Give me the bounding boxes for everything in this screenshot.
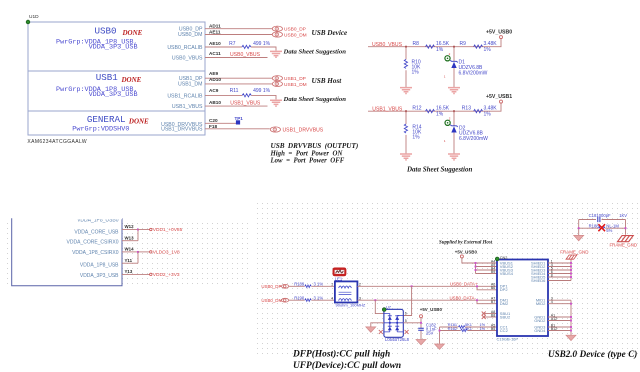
svg-text:USB1_VBUS: USB1_VBUS: [172, 104, 203, 110]
wire C18 top: [579, 219, 626, 221]
ground FRAME_GND symbol (C18): [618, 236, 634, 242]
svg-text:AD10: AD10: [209, 77, 221, 82]
svg-text:USB0_VBUS: USB0_VBUS: [230, 52, 261, 58]
svg-text:USB1_VBUS: USB1_VBUS: [230, 101, 261, 107]
svg-text:USB0_DATA+: USB0_DATA+: [450, 281, 478, 286]
svg-text:VLDO3_1V8: VLDO3_1V8: [153, 250, 180, 256]
svg-text:Low = Port Power OFF: Low = Port Power OFF: [270, 157, 345, 164]
no-connect X U7 bottom left: [379, 330, 383, 334]
wire SHIED5: [548, 276, 571, 278]
svg-text:USB1_RCALIB: USB1_RCALIB: [167, 93, 203, 99]
no-connect X R188 DNP mark: [598, 224, 605, 231]
svg-text:High = Port Power ON: High = Port Power ON: [270, 150, 344, 157]
resistor R11: [242, 94, 251, 97]
node VLDO3_1V8 net label: [150, 251, 152, 253]
svg-text:8: 8: [276, 27, 278, 31]
wire R190 to choke pin4: [311, 299, 335, 301]
capacitor C182: [418, 328, 424, 330]
wire USB0_DP to R189: [289, 285, 305, 287]
junction +5V / U7: [420, 322, 422, 324]
svg-text:USB0_DP: USB0_DP: [261, 284, 281, 289]
wire DM2 branch: [477, 300, 497, 304]
svg-text:DFP(Host):CC pull high: DFP(Host):CC pull high: [292, 348, 390, 359]
svg-text:2: 2: [359, 282, 361, 286]
svg-text:Data Sheet Suggestion: Data Sheet Suggestion: [283, 96, 347, 103]
resistor R189: [305, 285, 311, 288]
port USB1_DM off-page connector: [272, 81, 282, 86]
ground below R14: [400, 154, 412, 160]
wire SBU1 stub: [484, 313, 497, 315]
svg-text:AE9: AE9: [209, 71, 219, 76]
junction DP2: [476, 285, 478, 287]
wire USB1_DRVVBUS: [205, 128, 270, 130]
svg-text:DP2: DP2: [500, 287, 509, 292]
junction R14 tap: [405, 110, 407, 112]
wire USB1_DM: [205, 83, 272, 85]
node CN2 reference: [495, 257, 499, 261]
svg-text:R9: R9: [460, 41, 467, 47]
svg-text:3 1%: 3 1%: [314, 281, 324, 286]
power +5V_USB1 symbol: [500, 100, 503, 103]
svg-text:DM2: DM2: [500, 301, 509, 306]
resistor R188 (DNP): [599, 227, 605, 230]
svg-text:Y13: Y13: [125, 269, 133, 274]
svg-text:4: 4: [331, 296, 333, 300]
junction SHIED bus: [570, 262, 572, 264]
svg-text:Data Sheet Suggestion: Data Sheet Suggestion: [283, 49, 347, 56]
wire USB0_VBUS stub: [205, 57, 268, 59]
junction VDD1: [137, 229, 139, 231]
wire VDD1 net stub: [138, 229, 150, 231]
svg-text:499 1%: 499 1%: [253, 88, 271, 94]
wire USB0_VBUS rail: [368, 39, 501, 47]
svg-text:+5V_USB1: +5V_USB1: [486, 94, 512, 100]
svg-text:U7: U7: [386, 304, 392, 309]
svg-text:6.8V/200mW: 6.8V/200mW: [459, 70, 488, 76]
node VDD1_+0V85 net label: [150, 228, 152, 230]
svg-text:5K1: 5K1: [465, 326, 472, 331]
port USB0_DP off-page connector: [272, 26, 282, 31]
svg-text:AB10: AB10: [209, 100, 221, 105]
wire USB0_DM: [205, 34, 272, 36]
svg-text:USB1_DRVVBUS: USB1_DRVVBUS: [283, 127, 324, 133]
ground below R11: [270, 100, 282, 106]
wire CC1: [440, 326, 498, 328]
svg-text:AC9: AC9: [209, 88, 219, 93]
wire USB1_DP: [205, 77, 272, 79]
port USB1_DRVVBUS off-page connector: [270, 127, 280, 132]
svg-text:W12: W12: [125, 224, 135, 229]
ground below R10: [400, 88, 412, 94]
svg-text:1%: 1%: [436, 47, 444, 53]
wire VLDO3 net stub: [138, 251, 150, 253]
wire CC join to ground: [439, 327, 441, 344]
ground below GND bus: [566, 335, 576, 340]
pin number A8 B8: [491, 310, 495, 318]
svg-text:+5V_USB0: +5V_USB0: [486, 30, 512, 36]
svg-text:USB1_DRVVBUS: USB1_DRVVBUS: [161, 127, 203, 133]
junction ESD DM tap: [374, 299, 376, 301]
svg-text:1KV: 1KV: [619, 213, 627, 218]
node red stamp marker: [333, 268, 346, 276]
pin name GND1-4: [534, 314, 546, 333]
IC U1 power-pin block (clipped at top): [12, 218, 122, 286]
ground below C182: [416, 340, 426, 345]
resistor R190: [305, 299, 311, 302]
svg-text:1%: 1%: [412, 135, 420, 141]
connector CN2 block: [497, 260, 548, 337]
svg-text:USB1_DP: USB1_DP: [284, 76, 306, 82]
svg-text:AD11: AD11: [209, 24, 221, 29]
svg-text:C19GB-16P: C19GB-16P: [497, 337, 519, 342]
IC U1D USB controller block: [28, 22, 205, 135]
svg-text:U1D: U1D: [29, 14, 39, 20]
svg-text:R182: R182: [448, 326, 457, 331]
wire SHIED2: [548, 266, 571, 268]
svg-text:R188: R188: [589, 223, 600, 228]
svg-text:B8: B8: [491, 313, 495, 317]
pin name CC1 CC2: [500, 324, 509, 333]
svg-text:USB0_DM: USB0_DM: [178, 32, 203, 38]
svg-text:UFP(Device):CC pull down: UFP(Device):CC pull down: [293, 360, 401, 371]
wire GND4: [548, 330, 571, 332]
svg-text:USB0_RCALIB: USB0_RCALIB: [167, 45, 203, 51]
svg-text:USB2.0 Device (type C): USB2.0 Device (type C): [548, 349, 637, 359]
svg-text:1%: 1%: [484, 47, 492, 53]
resistor R14 vertical: [405, 111, 407, 154]
svg-text:R8: R8: [413, 41, 420, 47]
svg-text:USB0: USB0: [95, 26, 117, 37]
wire USB0_RCALIB: [205, 47, 276, 51]
junction GND bus MID2: [570, 303, 572, 305]
junction VBUS2: [475, 266, 477, 268]
junction D1 tap: [453, 46, 455, 48]
diode array U7 ESD protection: [384, 304, 403, 337]
svg-text:AE11: AE11: [209, 29, 221, 34]
wire USB0_DATA-: [357, 299, 497, 301]
wire U7 ground branch: [371, 323, 384, 327]
svg-text:5: 5: [405, 319, 407, 323]
svg-text:8: 8: [276, 82, 278, 86]
wire USB0_DRVVBUS to TP1: [205, 122, 237, 124]
svg-text:Data Sheet Suggestion: Data Sheet Suggestion: [406, 165, 472, 173]
svg-text:FRAME_GND: FRAME_GND: [610, 242, 638, 247]
svg-text:VDD2_+3V3: VDD2_+3V3: [153, 272, 180, 278]
svg-text:90ohm_100MHZ: 90ohm_100MHZ: [336, 303, 366, 308]
wire CC2: [440, 330, 498, 332]
testpoint TP1: [236, 120, 240, 124]
svg-text:XAM6234ATCGGAALW: XAM6234ATCGGAALW: [27, 139, 87, 145]
power +5V_USB0 symbol: [500, 36, 503, 39]
svg-text:W13: W13: [125, 235, 135, 240]
svg-text:R11: R11: [230, 88, 239, 94]
resistor R182: [461, 329, 467, 332]
resistor R10 vertical: [405, 47, 407, 88]
svg-text:USB1_DM: USB1_DM: [284, 82, 307, 88]
wire R189 to choke pin1: [311, 285, 335, 287]
wire ESD DM branch: [375, 300, 384, 313]
svg-text:USB1_VBUS: USB1_VBUS: [372, 106, 403, 112]
junction D2 tap: [453, 110, 455, 112]
svg-text:B6: B6: [491, 286, 495, 290]
svg-text:R12: R12: [412, 106, 421, 112]
resistor R13: [474, 110, 483, 113]
wire MID1: [548, 299, 571, 301]
svg-text:5%: 5%: [606, 228, 612, 233]
svg-text:USB0_VBUS: USB0_VBUS: [172, 55, 203, 61]
svg-text:CN2: CN2: [500, 256, 508, 260]
wire GND bus vertical: [570, 300, 572, 335]
wire GND2: [548, 320, 571, 322]
svg-text:1: 1: [331, 282, 333, 286]
no-connect X U7 bottom right: [405, 330, 409, 334]
svg-text:SHIED6: SHIED6: [531, 278, 546, 283]
svg-text:L054BT26L8: L054BT26L8: [385, 337, 410, 342]
junction R10 tap: [405, 46, 407, 48]
ground below D2: [448, 154, 460, 160]
svg-text:VDDA_1P8_USB: VDDA_1P8_USB: [80, 263, 119, 269]
resistor R181: [459, 326, 465, 329]
svg-text:B5: B5: [491, 327, 495, 331]
node D2 probe ring: [445, 120, 450, 125]
svg-text:GND4: GND4: [534, 328, 546, 333]
junction ESD DP tap: [411, 285, 413, 287]
svg-text:USB Device: USB Device: [312, 29, 349, 37]
svg-text:B12: B12: [551, 327, 557, 331]
svg-text:R13: R13: [462, 106, 471, 112]
ground below U7 left: [366, 327, 376, 332]
svg-text:AE10: AE10: [209, 41, 221, 46]
svg-text:USB0_DM: USB0_DM: [261, 298, 282, 303]
svg-text:W14: W14: [125, 247, 135, 252]
ground below CC resistors: [435, 344, 445, 349]
svg-text:VDDA_3P3_USB: VDDA_3P3_USB: [89, 91, 138, 99]
wire C18 left vertical: [578, 220, 580, 236]
wire ESD DP branch: [403, 286, 411, 315]
ground below D1: [448, 88, 460, 94]
resistor R9: [474, 45, 483, 48]
svg-text:F18: F18: [209, 124, 217, 129]
svg-text:USB1_DM: USB1_DM: [178, 82, 203, 88]
wire VDDA_1P8_USB pin: [122, 262, 138, 264]
junction R188 right: [625, 227, 627, 229]
svg-text:VDDA_CORE_CSIRX0: VDDA_CORE_CSIRX0: [67, 240, 119, 246]
svg-text:GENERAL: GENERAL: [87, 114, 126, 125]
ground below C18 left: [574, 235, 584, 240]
svg-text:AC11: AC11: [209, 51, 221, 56]
svg-text:VDDA_3P3_USB: VDDA_3P3_USB: [89, 44, 138, 52]
wire VDDA_CORE_USB pin: [122, 229, 138, 231]
svg-text:R190: R190: [294, 295, 305, 300]
wire join W12-W13: [137, 230, 139, 241]
svg-text:USB0_DP: USB0_DP: [284, 27, 306, 33]
svg-text:+5V_USB0: +5V_USB0: [420, 307, 443, 312]
wire SHIED1: [548, 262, 571, 264]
ground below R7: [270, 51, 282, 57]
svg-text:3 1%: 3 1%: [314, 295, 324, 300]
wire U7 pin5 to +5V rail: [403, 322, 421, 324]
svg-text:FRAME_GND: FRAME_GND: [560, 250, 589, 255]
svg-text:8: 8: [276, 33, 278, 37]
node D1 probe ring: [445, 56, 450, 61]
svg-text:B9: B9: [491, 270, 495, 274]
junction DM2: [476, 299, 478, 301]
svg-text:Supplied by External Host: Supplied by External Host: [439, 240, 493, 245]
junction GND3: [570, 326, 572, 328]
wire VBUS2: [476, 266, 498, 268]
svg-text:Y11: Y11: [125, 258, 133, 263]
wire USB1_VBUS stub: [205, 105, 268, 107]
svg-text:VDDA_CORE_USB: VDDA_CORE_USB: [74, 230, 119, 236]
svg-text:3: 3: [359, 296, 361, 300]
svg-text:25V: 25V: [426, 331, 434, 336]
svg-text:VDD1_+0V85: VDD1_+0V85: [153, 227, 183, 233]
svg-text:1000pF: 1000pF: [596, 213, 611, 218]
inductor LE1 common mode choke: [335, 277, 358, 303]
junction R188 left: [578, 227, 580, 229]
pin number A5 B5: [491, 323, 495, 331]
no-connect X SBU1: [482, 312, 486, 316]
junction CC2 join: [439, 330, 441, 332]
wire USB0_DM to R190: [289, 299, 305, 301]
wire MID2: [548, 303, 571, 305]
svg-text:1%: 1%: [480, 326, 486, 331]
svg-text:C20: C20: [209, 118, 218, 123]
pin name DM1 DM2: [500, 298, 509, 307]
svg-text:USB0_VBUS: USB0_VBUS: [372, 42, 403, 48]
wire GND1: [548, 316, 571, 318]
svg-text:8: 8: [551, 273, 553, 277]
wire D2 branch: [453, 111, 455, 154]
resistor R12: [426, 110, 435, 113]
wire USB1_RCALIB: [205, 95, 276, 99]
svg-text:VDDA_3P3_USB: VDDA_3P3_USB: [80, 273, 119, 279]
svg-text:VBUS4: VBUS4: [500, 271, 514, 276]
pin number A4 A9 B4 B9: [491, 259, 495, 274]
svg-text:TP1: TP1: [235, 116, 244, 121]
svg-text:USB DRVVBUS (OUTPUT): USB DRVVBUS (OUTPUT): [271, 142, 359, 150]
wire SBU2 stub: [484, 316, 497, 318]
diode D2 zener: [450, 125, 457, 133]
wire SHIED bus vertical: [570, 259, 572, 280]
wire VDDA_3P3_USB pin: [122, 273, 150, 275]
svg-text:6: 6: [405, 312, 407, 316]
wire SHIED4: [548, 273, 571, 275]
svg-text:6.8V/200mW: 6.8V/200mW: [459, 136, 488, 142]
svg-text:USB0_DATA-: USB0_DATA-: [450, 295, 477, 300]
junction VLDO3: [137, 251, 139, 253]
wire VBUS4: [476, 273, 498, 275]
svg-text:1%: 1%: [412, 70, 420, 76]
svg-text:VDDA_1P8_CSIRX0: VDDA_1P8_CSIRX0: [72, 250, 119, 256]
wire join W14-Y11: [137, 252, 139, 263]
svg-text:GND2: GND2: [534, 318, 546, 323]
svg-text:CC2: CC2: [500, 328, 509, 333]
svg-text:DONE: DONE: [122, 29, 143, 37]
pin number A7 B7: [491, 297, 495, 305]
junction GND1: [570, 316, 572, 318]
wire +5V to VBUS bus: [462, 258, 497, 263]
svg-text:499 1%: 499 1%: [253, 41, 271, 47]
junction VBUS3: [475, 269, 477, 271]
wire VBUS3: [476, 269, 498, 271]
capacitor C18: [598, 217, 600, 222]
wire VDDA_1P8_CSIRX0 pin: [122, 251, 138, 253]
svg-text:A12: A12: [551, 317, 557, 321]
node VDD2_+3V3 net label: [150, 273, 152, 275]
wire VDDA_CORE_CSIRX0 pin: [122, 240, 138, 242]
wire USB1_VBUS rail: [368, 104, 501, 112]
svg-text:8: 8: [276, 77, 278, 81]
wire R188 row: [579, 227, 626, 229]
svg-text:USB0_DM: USB0_DM: [284, 32, 307, 38]
svg-text:R189: R189: [294, 281, 305, 286]
wire DP2 branch: [477, 286, 497, 290]
svg-text:USB1: USB1: [96, 72, 119, 83]
ground FRAME_GND symbol (shield): [566, 255, 577, 259]
wire VBUS bus vertical: [475, 263, 477, 274]
no-connect X SBU2: [482, 315, 486, 319]
wire SHIED3: [548, 269, 571, 271]
svg-text:PwrGrp:VDDSHV0: PwrGrp:VDDSHV0: [72, 125, 129, 133]
svg-text:DONE: DONE: [128, 117, 149, 125]
wire USB0_DP: [205, 28, 272, 30]
pin name MID1 MID2: [536, 298, 546, 307]
pin number A6 B6: [491, 283, 495, 291]
wire SHIED6: [548, 280, 571, 282]
pin name VBUS1-4: [500, 260, 514, 276]
svg-text:USB Host: USB Host: [312, 77, 343, 85]
node U7 green dot: [382, 308, 386, 312]
node U1D corner green dot: [26, 20, 30, 24]
svg-text:R7: R7: [229, 41, 236, 47]
wire GND3: [548, 326, 571, 328]
wire +5V rail down: [420, 318, 422, 339]
svg-text:1%: 1%: [484, 112, 492, 118]
svg-text:1%: 1%: [436, 112, 444, 118]
wire USB0_DATA+: [357, 285, 497, 287]
svg-text:4: 4: [551, 300, 553, 304]
wire D1 branch: [453, 47, 455, 88]
svg-text:DONE: DONE: [121, 76, 142, 84]
resistor R8: [426, 45, 435, 48]
pin name SHIED1-6: [531, 260, 546, 283]
resistor R7: [242, 45, 251, 48]
svg-text:0: 0: [274, 128, 276, 132]
junction VBUS bus top: [475, 262, 477, 264]
pin name SBU1 SBU2: [500, 311, 511, 320]
diode D1 zener: [450, 60, 457, 68]
svg-text:+5V_USB0: +5V_USB0: [455, 250, 478, 255]
junction GND2: [570, 320, 572, 322]
svg-text:MID2: MID2: [536, 301, 546, 306]
svg-text:B7: B7: [491, 300, 495, 304]
pin name DP1 DP2: [500, 284, 509, 293]
svg-text:SBU2: SBU2: [500, 314, 511, 319]
port USB1_DP off-page connector: [272, 76, 282, 81]
wire C18 right vertical: [625, 220, 627, 235]
port USB0_DM off-page connector: [272, 32, 282, 37]
junction GND4: [570, 330, 572, 332]
